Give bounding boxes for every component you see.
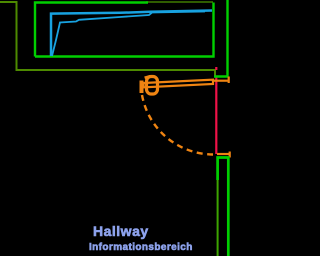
cyan inner polyline — [52, 12, 205, 57]
room right wall green — [35, 3, 214, 57]
red line door opening top stub — [215, 67, 217, 70]
door arc end tick orange — [229, 152, 231, 158]
wall olive outline top-left — [0, 2, 215, 77]
red line door opening — [215, 78, 217, 155]
wall olive dim top-right segment — [146, 1, 213, 3]
door threshold orange right — [214, 80, 230, 82]
wall green right vertical — [214, 0, 228, 77]
door arc end line orange — [217, 153, 231, 155]
wall below door green — [218, 158, 229, 256]
room label line 1 — [93, 223, 149, 239]
cyan outer polyline — [51, 11, 212, 57]
room rectangle green — [35, 3, 148, 57]
wall below door left line — [217, 157, 219, 256]
door hinge tail orange — [145, 76, 150, 78]
door threshold tick orange — [228, 77, 230, 84]
room label line 2 — [89, 242, 193, 253]
door swing arc orange dashed — [142, 95, 213, 155]
door jamb bar orange — [140, 81, 144, 94]
door hinge ring orange — [147, 77, 158, 95]
door leaf orange — [144, 80, 214, 88]
